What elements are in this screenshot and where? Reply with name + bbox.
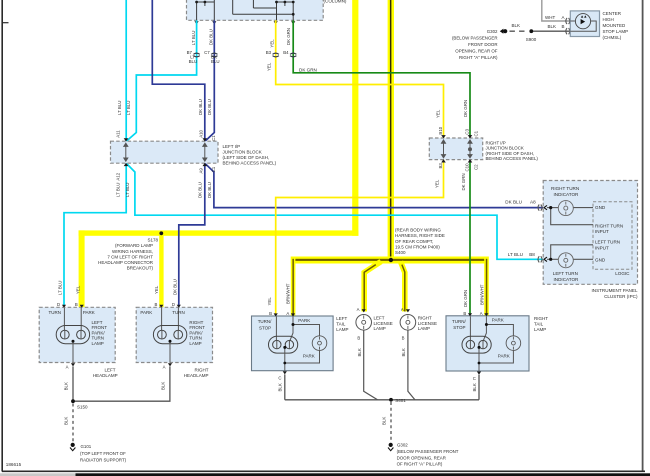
svg-text:RIGHT “A” PILLAR): RIGHT “A” PILLAR) bbox=[459, 55, 498, 60]
wire labels above left front lamp bbox=[57, 281, 80, 295]
CHMSL BLK connector B bbox=[566, 28, 574, 34]
svg-text:BLK: BLK bbox=[472, 383, 477, 391]
right tail lamp box bbox=[446, 316, 529, 371]
wire labels above left tail lamp bbox=[267, 283, 290, 305]
S178 label bbox=[98, 238, 158, 271]
svg-text:BRN/WHT: BRN/WHT bbox=[286, 283, 291, 304]
svg-text:LEFT: LEFT bbox=[336, 316, 347, 321]
ground G302 (bottom) bbox=[388, 443, 393, 451]
svg-text:186615: 186615 bbox=[6, 462, 22, 467]
wire label DK GRN horizontal run bbox=[299, 68, 317, 73]
right I/P junction block bbox=[429, 138, 482, 160]
svg-text:DK BLU: DK BLU bbox=[207, 182, 212, 198]
switch internal wiring bbox=[197, 0, 294, 20]
svg-text:BLK: BLK bbox=[382, 417, 387, 425]
G101 label bbox=[80, 444, 127, 462]
svg-text:(REAR BODY WIRING: (REAR BODY WIRING bbox=[395, 228, 441, 233]
BLK labels rear bbox=[278, 383, 477, 391]
BLK dashed wire S150 to G101 bbox=[64, 404, 73, 443]
svg-text:HEADLAMP: HEADLAMP bbox=[93, 373, 118, 378]
svg-text:A: A bbox=[66, 365, 69, 370]
CHMSL lamp symbol bbox=[575, 14, 590, 29]
svg-text:RIGHT: RIGHT bbox=[418, 315, 432, 320]
left license caption bbox=[374, 315, 393, 331]
svg-text:BREAKOUT): BREAKOUT) bbox=[127, 266, 154, 271]
IPC caption bbox=[591, 288, 637, 299]
svg-text:C1: C1 bbox=[473, 130, 478, 136]
CHMSL BLK wire with splice S900 bbox=[531, 30, 570, 32]
svg-text:C: C bbox=[473, 376, 476, 381]
svg-text:DK GRN: DK GRN bbox=[461, 173, 466, 190]
svg-text:TURN: TURN bbox=[172, 310, 185, 315]
right junction block internal bus B10-B3 bbox=[442, 140, 446, 158]
svg-text:LICENSE: LICENSE bbox=[418, 321, 437, 326]
svg-text:(TOP LEFT FRONT OF: (TOP LEFT FRONT OF bbox=[80, 451, 126, 456]
left junction block label bbox=[223, 144, 277, 166]
svg-text:MOUNTED: MOUNTED bbox=[603, 23, 626, 28]
right license caption bbox=[418, 315, 437, 331]
svg-text:LAMP: LAMP bbox=[534, 327, 546, 332]
svg-text:CLUSTER (IPC): CLUSTER (IPC) bbox=[604, 294, 638, 299]
left front park/turn lamp box bbox=[39, 307, 115, 362]
junction block internal bus A10-A9 bbox=[203, 143, 207, 161]
left license pin A arrow bbox=[357, 307, 366, 312]
wire DK BLU: A9 to right front park/turn lamp TURN pin D bbox=[179, 163, 205, 306]
svg-text:B: B bbox=[402, 335, 405, 340]
svg-text:WIRING HARNESS,: WIRING HARNESS, bbox=[112, 249, 153, 254]
IPC connector A8 bbox=[538, 205, 547, 211]
wire DK BLU: from top of page to junction block A10 bbox=[152, 0, 205, 141]
svg-text:LICENSE: LICENSE bbox=[374, 321, 393, 326]
in-line connector B3 bbox=[266, 39, 279, 71]
diagram number 186615 bbox=[6, 462, 22, 467]
svg-text:BRN/WHT: BRN/WHT bbox=[480, 284, 485, 305]
pin C10 bbox=[464, 159, 478, 171]
svg-text:OPENING, REAR OF: OPENING, REAR OF bbox=[455, 48, 498, 53]
TURN / PARK labels left front lamp bbox=[49, 310, 95, 315]
svg-text:A: A bbox=[357, 307, 360, 312]
svg-text:A9: A9 bbox=[198, 168, 203, 174]
wire label BLK B bbox=[548, 24, 565, 29]
svg-text:S150: S150 bbox=[77, 405, 88, 410]
right junction block internal bus C3-C10 bbox=[468, 140, 472, 158]
svg-text:STOP: STOP bbox=[259, 325, 271, 330]
wire YEL: from switch B3 to right I/P junction block B10 bbox=[276, 20, 444, 138]
right front lamp pin B arrow bbox=[154, 302, 163, 308]
right license pin A arrow bbox=[401, 307, 410, 312]
svg-text:B: B bbox=[562, 24, 565, 29]
svg-text:B: B bbox=[357, 335, 360, 340]
svg-text:A: A bbox=[163, 365, 166, 370]
thick wire: left license BRN/WHT branch bbox=[364, 262, 381, 312]
wire DK GRN: from switch B4 to right I/P junction block C3 bbox=[293, 20, 470, 138]
center high mounted stop lamp CHMSL box bbox=[570, 11, 599, 37]
left tail lamp internals bbox=[269, 317, 320, 371]
svg-text:A11: A11 bbox=[116, 130, 121, 138]
svg-text:(BELOW PASSENGER FRONT: (BELOW PASSENGER FRONT bbox=[397, 449, 459, 454]
PARK / TURN labels right front lamp bbox=[140, 310, 184, 315]
right tail lamp labels bbox=[452, 318, 510, 359]
svg-text:(BELOW PASSENGER: (BELOW PASSENGER bbox=[452, 35, 498, 40]
left front lamp pin D arrow bbox=[57, 302, 66, 308]
thick wire: rear BRN/WHT horizontal through S400 bbox=[291, 257, 489, 264]
svg-text:YEL: YEL bbox=[75, 285, 80, 294]
rear BLK ground bus to S401 bbox=[285, 374, 479, 399]
IPC internal wiring left turn bbox=[547, 245, 593, 259]
svg-text:LT BLU: LT BLU bbox=[117, 101, 122, 115]
svg-text:BLK: BLK bbox=[64, 417, 69, 425]
left I/P junction block bbox=[111, 141, 219, 163]
svg-text:RIGHT TURN: RIGHT TURN bbox=[551, 186, 579, 191]
wire label LT BLU B8 bbox=[508, 252, 535, 257]
window bottom bar bbox=[0, 473, 650, 476]
wire LT BLU: from top of page into A11 bbox=[125, 0, 127, 141]
right turn indicator lamp bbox=[558, 201, 573, 216]
svg-text:DK GRN: DK GRN bbox=[299, 68, 317, 73]
pin A9 bbox=[198, 163, 216, 174]
svg-text:DK BLU: DK BLU bbox=[198, 182, 203, 198]
svg-text:S178: S178 bbox=[147, 238, 158, 243]
IPC connector B8 bbox=[538, 256, 547, 262]
svg-text:RIGHT TURN: RIGHT TURN bbox=[595, 223, 623, 228]
svg-text:LAMP: LAMP bbox=[418, 326, 430, 331]
G302 (bottom) label bbox=[397, 442, 459, 466]
svg-text:B8: B8 bbox=[529, 252, 535, 257]
CHMSL WHT connector A bbox=[566, 18, 574, 24]
svg-text:RIGHT: RIGHT bbox=[534, 316, 548, 321]
svg-text:BLK: BLK bbox=[548, 24, 557, 29]
svg-text:PARK: PARK bbox=[140, 310, 152, 315]
svg-text:A: A bbox=[286, 311, 289, 316]
right front lamp internals bbox=[153, 308, 186, 363]
svg-text:LEFT TURN: LEFT TURN bbox=[553, 271, 578, 276]
svg-text:TAIL: TAIL bbox=[534, 321, 544, 326]
thick wire: front park horizontal YEL y=233 bbox=[79, 230, 359, 235]
svg-text:PARK: PARK bbox=[298, 318, 310, 323]
svg-text:(CHMSL): (CHMSL) bbox=[603, 35, 622, 40]
wire LT BLU: A12 branch to IPC B8 bbox=[126, 163, 543, 259]
svg-text:STOP LAMP: STOP LAMP bbox=[603, 29, 629, 34]
right tail park lamp bbox=[506, 336, 521, 351]
splice S401 bbox=[389, 398, 406, 403]
svg-text:C1: C1 bbox=[211, 166, 216, 172]
pin C3 bbox=[464, 128, 478, 138]
page frame right border bbox=[642, 0, 644, 472]
svg-text:B: B bbox=[269, 311, 272, 316]
svg-text:(COLUMN): (COLUMN) bbox=[324, 0, 347, 3]
wire LT BLU: from switch B7 to left I/P junction block A11 bbox=[126, 20, 196, 141]
svg-text:LEFT: LEFT bbox=[104, 367, 115, 372]
left license pin B and BLK wire bbox=[357, 330, 378, 400]
LEFT TAIL LAMP caption bbox=[336, 316, 348, 332]
svg-text:B4: B4 bbox=[283, 50, 289, 55]
svg-text:TURN/: TURN/ bbox=[452, 319, 466, 324]
right front lamp caption bbox=[189, 320, 205, 346]
right license lamp bbox=[400, 315, 416, 331]
svg-text:INDICATOR: INDICATOR bbox=[554, 277, 580, 282]
left tail lamp box bbox=[252, 316, 334, 371]
pin B3 bbox=[438, 159, 446, 168]
right tail lamp pin A arrow bbox=[480, 311, 489, 316]
LEFT HEADLAMP caption bbox=[93, 367, 118, 378]
left front lamp caption bbox=[92, 320, 108, 346]
svg-text:C3: C3 bbox=[464, 128, 469, 134]
svg-text:D: D bbox=[57, 302, 60, 307]
BLK dashed wire S401 to G302 bbox=[382, 402, 391, 443]
svg-text:BEHIND ACCESS PANEL): BEHIND ACCESS PANEL) bbox=[223, 161, 277, 166]
svg-text:INDICATOR: INDICATOR bbox=[554, 192, 580, 197]
right front park/turn lamp box bbox=[136, 307, 212, 362]
svg-text:DK GRN: DK GRN bbox=[463, 290, 468, 307]
svg-text:HARNESS, RIGHT SIDE: HARNESS, RIGHT SIDE bbox=[395, 233, 445, 238]
svg-text:OF REAR COMPT,: OF REAR COMPT, bbox=[395, 239, 433, 244]
turn signal switch (on steering column, cut off at top) bbox=[187, 0, 324, 20]
left tail lamp pin B arrow bbox=[269, 311, 278, 316]
svg-text:BEHIND ACCESS PANEL): BEHIND ACCESS PANEL) bbox=[486, 156, 539, 161]
IPC LOGIC box bbox=[593, 202, 632, 276]
thick wire: left front park drop bbox=[79, 230, 85, 307]
wire labels around right junction block bbox=[435, 100, 469, 191]
wire label WHT A bbox=[545, 15, 565, 20]
svg-text:OF RIGHT “A” PILLAR): OF RIGHT “A” PILLAR) bbox=[397, 462, 443, 467]
pin A12 bbox=[116, 163, 129, 181]
page frame bottom line bbox=[2, 470, 645, 472]
svg-text:(LEFT SIDE OF DASH,: (LEFT SIDE OF DASH, bbox=[223, 155, 270, 160]
svg-text:LT BLU: LT BLU bbox=[191, 31, 196, 45]
svg-text:YEL: YEL bbox=[436, 109, 441, 118]
svg-text:HEADLAMP: HEADLAMP bbox=[184, 373, 209, 378]
left front lamp pin B arrow bbox=[75, 302, 84, 308]
thick wire: left tail lamp BRN/WHT drop bbox=[291, 257, 296, 317]
svg-text:PARK: PARK bbox=[492, 318, 504, 323]
thick wire: park lamp feed bar from top (YEL) bbox=[352, 0, 358, 236]
svg-text:C1: C1 bbox=[211, 135, 216, 141]
svg-text:PARK: PARK bbox=[498, 354, 510, 359]
svg-text:A8: A8 bbox=[530, 200, 536, 205]
svg-text:LT BLU: LT BLU bbox=[125, 183, 130, 197]
S400 label bbox=[395, 228, 445, 255]
svg-text:PARK: PARK bbox=[303, 354, 315, 359]
svg-text:YEL: YEL bbox=[270, 39, 275, 48]
svg-text:YEL: YEL bbox=[435, 179, 440, 188]
svg-text:JUNCTION BLOCK: JUNCTION BLOCK bbox=[223, 150, 262, 155]
right junction block label bbox=[486, 140, 539, 161]
svg-text:LT BLU: LT BLU bbox=[508, 252, 523, 257]
svg-text:S900: S900 bbox=[526, 37, 537, 42]
svg-text:YEL: YEL bbox=[154, 285, 159, 294]
svg-text:LAMP: LAMP bbox=[189, 341, 201, 346]
svg-text:DK BLU: DK BLU bbox=[198, 99, 203, 115]
instrument panel cluster IPC box bbox=[543, 181, 637, 285]
svg-text:DK GRN: DK GRN bbox=[286, 28, 291, 45]
svg-text:BLK: BLK bbox=[512, 23, 521, 28]
svg-text:DK GRN: DK GRN bbox=[463, 100, 468, 117]
svg-text:A: A bbox=[480, 311, 483, 316]
svg-text:LT BLU: LT BLU bbox=[126, 101, 131, 115]
svg-text:S400: S400 bbox=[395, 250, 406, 255]
splice S400 bbox=[389, 258, 393, 262]
svg-text:S401: S401 bbox=[395, 398, 406, 403]
right front lamp pin A arrow below bbox=[163, 363, 173, 369]
svg-text:B: B bbox=[75, 302, 78, 307]
svg-text:G302: G302 bbox=[487, 29, 498, 34]
wire DK BLU: from switch C7 into A10 bbox=[205, 20, 214, 141]
CHMSL WHT feed wire from top bbox=[542, 0, 571, 21]
svg-text:A: A bbox=[401, 307, 404, 312]
svg-text:C7: C7 bbox=[204, 50, 210, 55]
left license lamp bbox=[356, 315, 372, 331]
svg-text:BLK: BLK bbox=[64, 382, 69, 390]
svg-text:PARK: PARK bbox=[83, 310, 95, 315]
right tail lamp internals bbox=[462, 316, 513, 371]
CHMSL label bbox=[603, 11, 629, 40]
splice S150 bbox=[71, 399, 88, 409]
junction block internal bus A11-A12 bbox=[124, 143, 128, 161]
svg-text:7 CM LEFT OF RIGHT: 7 CM LEFT OF RIGHT bbox=[107, 254, 153, 259]
left tail park lamp bbox=[312, 336, 327, 351]
svg-text:TURN/: TURN/ bbox=[258, 319, 272, 324]
svg-text:19.5 CM FROM P400): 19.5 CM FROM P400) bbox=[395, 244, 440, 249]
pin A10 bbox=[198, 129, 216, 141]
svg-text:RIGHT: RIGHT bbox=[195, 367, 209, 372]
right tail lamp pin C arrow below bbox=[473, 372, 481, 381]
svg-text:B3: B3 bbox=[438, 163, 443, 169]
right license pin B and BLK wire bbox=[401, 330, 415, 400]
wire labels above left junction block bbox=[117, 99, 212, 115]
svg-text:A: A bbox=[562, 15, 565, 20]
svg-text:DK BLU: DK BLU bbox=[208, 29, 213, 45]
left turn indicator lamp bbox=[558, 253, 573, 268]
svg-text:TURN: TURN bbox=[49, 310, 62, 315]
ground G302 (top) symbol bbox=[500, 29, 508, 34]
svg-text:DK BLU: DK BLU bbox=[505, 200, 522, 205]
pin B10 bbox=[438, 126, 446, 138]
G302 (top) label bbox=[452, 29, 498, 60]
page frame left border bbox=[2, 0, 8, 472]
switch internal junction dots bbox=[195, 1, 294, 16]
svg-text:BLU: BLU bbox=[211, 59, 220, 64]
splice S900 bbox=[526, 29, 537, 42]
svg-text:DK BLU: DK BLU bbox=[172, 279, 177, 295]
svg-text:D: D bbox=[172, 302, 175, 307]
svg-text:B: B bbox=[463, 311, 466, 316]
svg-text:CENTER: CENTER bbox=[603, 11, 622, 16]
wire LT BLU: A12 to left front park/turn lamp TURN pin D bbox=[64, 163, 126, 306]
svg-text:DK BLU: DK BLU bbox=[207, 99, 212, 115]
svg-text:B10: B10 bbox=[438, 126, 443, 134]
svg-text:GND: GND bbox=[595, 258, 606, 263]
ground G101 bbox=[70, 443, 75, 451]
thick wire: right tail lamp BRN/WHT drop bbox=[484, 257, 489, 316]
thick wire: rear body feed bar from top (BRN/WHT, dark tracer) bbox=[388, 0, 394, 260]
svg-text:FRONT DOOR: FRONT DOOR bbox=[468, 42, 497, 47]
wire labels above right tail lamp bbox=[463, 284, 485, 307]
svg-text:BLK: BLK bbox=[401, 348, 406, 356]
svg-text:HEADLAMP CONNECTOR: HEADLAMP CONNECTOR bbox=[98, 260, 154, 265]
right front lamp pin D arrow bbox=[172, 302, 181, 308]
svg-text:G101: G101 bbox=[81, 444, 92, 449]
svg-text:YEL: YEL bbox=[267, 297, 272, 306]
svg-text:INSTRUMENT PANEL: INSTRUMENT PANEL bbox=[591, 288, 637, 293]
svg-text:C: C bbox=[278, 376, 281, 381]
svg-text:LEFT: LEFT bbox=[374, 315, 385, 320]
switch label (COLUMN) partial bbox=[324, 0, 347, 3]
wire label DK BLU A8 bbox=[505, 200, 536, 205]
svg-text:LOGIC: LOGIC bbox=[615, 271, 630, 276]
RIGHT HEADLAMP caption bbox=[184, 367, 209, 378]
wire DK GRN: C10 of junction block to right tail lamp TURN/STOP pin B bbox=[469, 160, 471, 314]
left tail lamp pin A arrow bbox=[286, 311, 295, 316]
pin A11 bbox=[116, 130, 129, 142]
thick wire: right license BRN/WHT branch bbox=[401, 262, 405, 312]
left tail lamp pin C arrow below bbox=[278, 371, 287, 380]
svg-text:LT BLU: LT BLU bbox=[115, 183, 120, 197]
svg-text:LT BLU: LT BLU bbox=[57, 281, 62, 295]
thick wire: right front park drop (from S178) bbox=[159, 233, 163, 307]
svg-text:YEL: YEL bbox=[266, 62, 271, 71]
left front lamp internals bbox=[56, 308, 89, 363]
BLK dashed wire to ground G302 (top) bbox=[510, 23, 529, 31]
svg-text:B3: B3 bbox=[266, 50, 272, 55]
right tail lamp pin B arrow bbox=[463, 311, 472, 316]
svg-text:LAMP: LAMP bbox=[374, 326, 386, 331]
left tail lamp labels bbox=[258, 318, 315, 359]
IPC labels bbox=[551, 186, 623, 282]
wire YEL: B3 of junction block to left tail lamp TURN/STOP pin B bbox=[276, 160, 444, 314]
svg-text:LEFT I/P: LEFT I/P bbox=[223, 144, 241, 149]
in-line connector B4 bbox=[283, 28, 296, 57]
svg-text:BLU: BLU bbox=[189, 59, 198, 64]
CHMSL internal wiring bbox=[570, 21, 596, 31]
svg-text:INPUT: INPUT bbox=[595, 229, 609, 234]
svg-text:G302: G302 bbox=[397, 442, 408, 447]
svg-text:STOP: STOP bbox=[453, 325, 465, 330]
in-line connector C7 bbox=[204, 29, 219, 64]
wire DK BLU: A9 branch to IPC A8 bbox=[205, 163, 543, 207]
svg-text:TAIL: TAIL bbox=[336, 322, 346, 327]
switch bottom pin arrows bbox=[195, 21, 296, 24]
svg-text:LEFT TURN: LEFT TURN bbox=[595, 240, 620, 245]
svg-text:WHT: WHT bbox=[545, 15, 555, 20]
in-line connector B7 bbox=[187, 31, 200, 65]
RIGHT TAIL LAMP caption bbox=[534, 316, 548, 332]
splice S178 bbox=[159, 231, 163, 235]
svg-text:BLK: BLK bbox=[278, 383, 283, 391]
svg-text:RADIATOR SUPPORT): RADIATOR SUPPORT) bbox=[80, 458, 127, 463]
svg-text:DOOR OPENING, REAR: DOOR OPENING, REAR bbox=[397, 455, 446, 460]
left front lamp pin A arrow below bbox=[66, 363, 76, 369]
svg-text:A12: A12 bbox=[116, 172, 121, 180]
svg-text:INPUT: INPUT bbox=[595, 246, 609, 251]
BLK labels front bbox=[64, 382, 166, 391]
IPC internal wiring right turn bbox=[547, 208, 593, 225]
svg-text:(FORWARD LAMP: (FORWARD LAMP bbox=[115, 243, 153, 248]
svg-text:C10: C10 bbox=[464, 163, 469, 172]
svg-text:LAMP: LAMP bbox=[92, 341, 104, 346]
svg-text:HIGH: HIGH bbox=[603, 17, 614, 22]
wire labels above right front lamp bbox=[154, 279, 177, 295]
svg-text:C2: C2 bbox=[473, 164, 478, 170]
svg-text:BLK: BLK bbox=[161, 382, 166, 390]
svg-text:GND: GND bbox=[595, 205, 606, 210]
wire labels below left junction block bbox=[115, 182, 212, 198]
left headlamp BLK ground wire to S150 bbox=[73, 366, 170, 401]
svg-text:LAMP: LAMP bbox=[336, 327, 348, 332]
svg-text:BLK: BLK bbox=[357, 348, 362, 356]
svg-text:A10: A10 bbox=[198, 129, 203, 137]
svg-text:B: B bbox=[154, 302, 157, 307]
